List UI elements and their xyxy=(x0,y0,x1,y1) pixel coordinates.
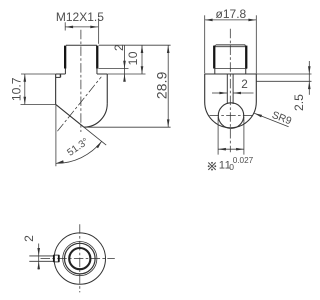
svg-text:28.9: 28.9 xyxy=(155,71,170,99)
svg-text:ø17.8: ø17.8 xyxy=(216,7,247,21)
svg-text:0.027: 0.027 xyxy=(233,156,254,165)
svg-text:2: 2 xyxy=(241,77,248,91)
svg-text:2: 2 xyxy=(112,44,126,51)
svg-text:2.5: 2.5 xyxy=(292,94,306,111)
svg-text:10.7: 10.7 xyxy=(10,77,24,101)
svg-text:10: 10 xyxy=(126,51,140,65)
svg-text:2: 2 xyxy=(22,235,36,242)
svg-text:M12X1.5: M12X1.5 xyxy=(56,10,104,24)
